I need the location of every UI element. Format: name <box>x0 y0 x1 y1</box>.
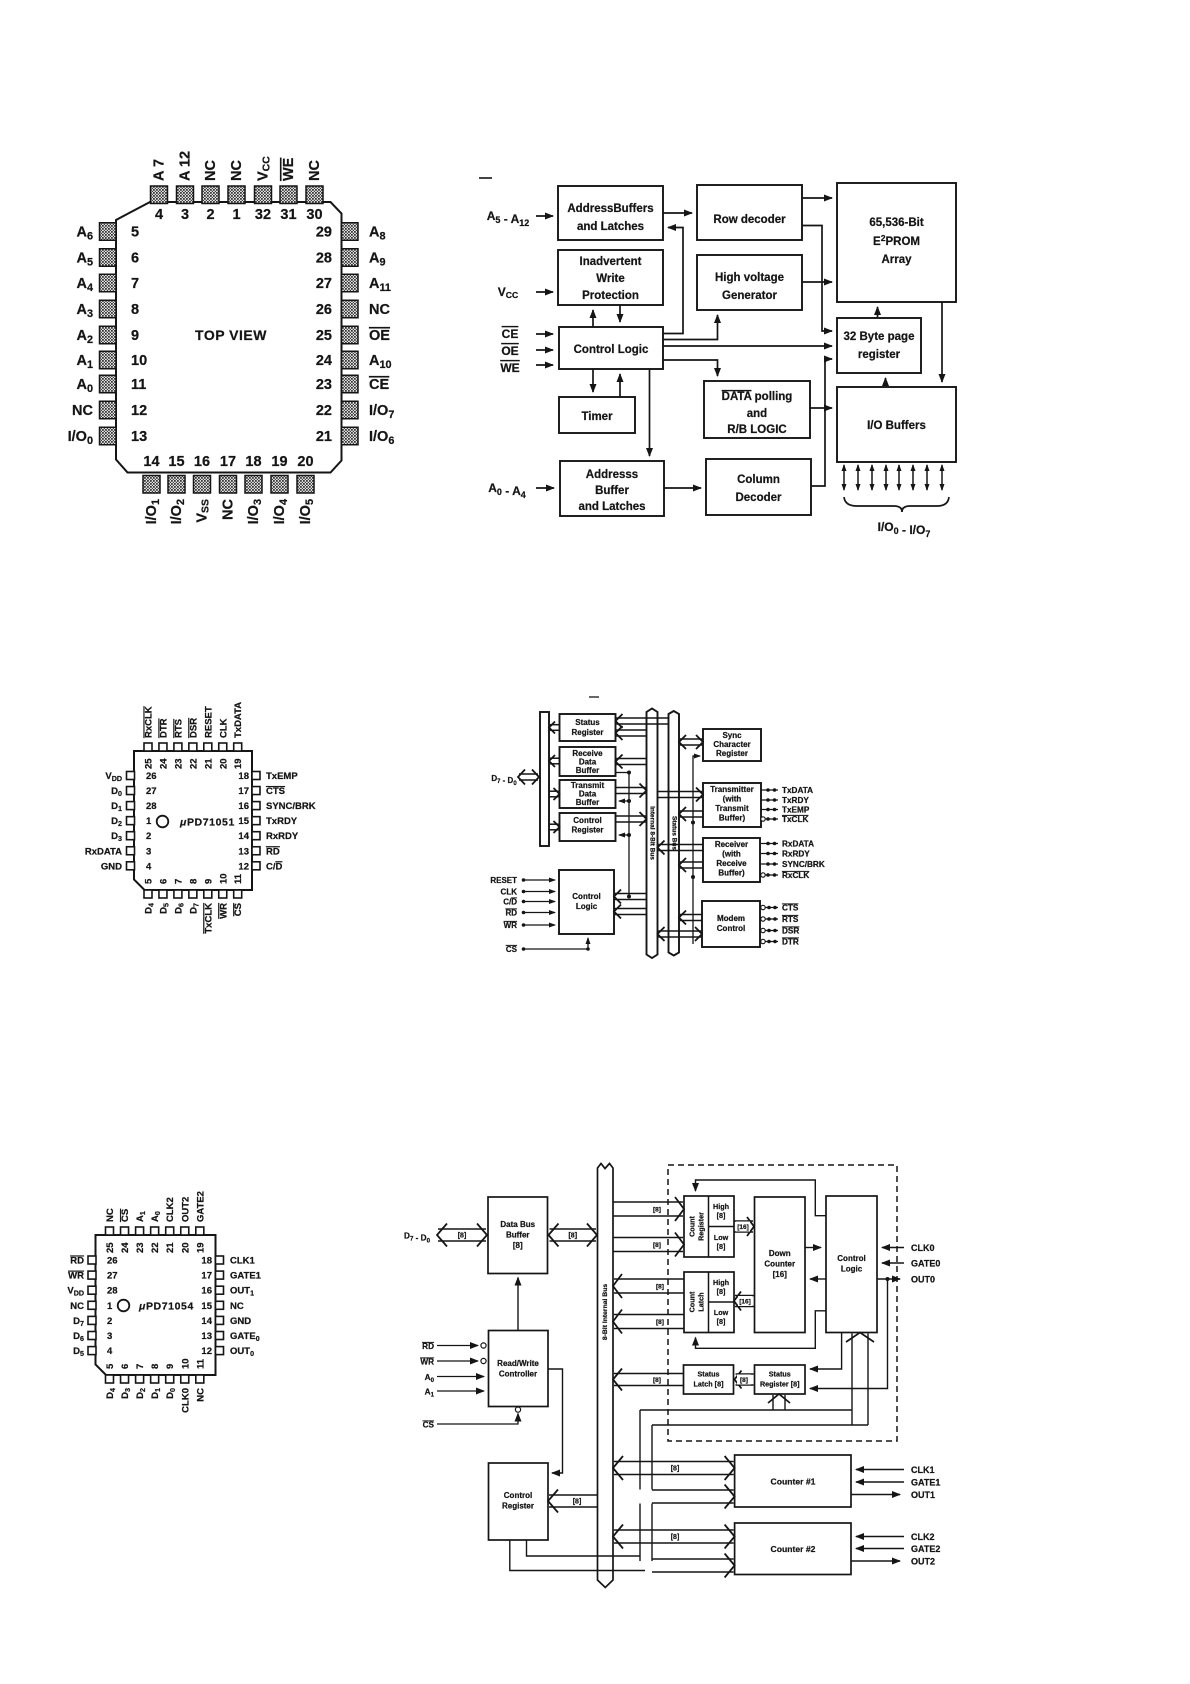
wire rail risers down to Counter 2 duct <box>639 1504 641 1562</box>
svg-text:1: 1 <box>146 816 152 827</box>
block: Control Logic <box>559 327 663 369</box>
svg-text:Control: Control <box>837 1254 865 1263</box>
svg-text:4: 4 <box>155 207 163 223</box>
svg-text:9: 9 <box>165 1364 176 1369</box>
fat arrow bus to Count Register Low [8] <box>613 1233 684 1257</box>
svg-text:Column: Column <box>737 474 780 486</box>
svg-text:2: 2 <box>107 1316 112 1327</box>
pin 8 (D7) bottom U2 <box>188 879 200 914</box>
pin 20 (CLK) top U2 <box>218 718 229 769</box>
svg-text:22: 22 <box>316 403 332 419</box>
pin 24 (CS) top U3 <box>120 1209 131 1253</box>
svg-text:GATE2: GATE2 <box>911 1544 940 1554</box>
input CLK (71051) <box>501 888 555 897</box>
fat arrow Internal Bus to Transmitter <box>658 788 704 802</box>
svg-text:21: 21 <box>165 1242 176 1253</box>
svg-text:CS: CS <box>233 903 244 916</box>
pin 12 (C/D) right U2 <box>238 861 282 872</box>
input RD (71051) <box>505 909 555 918</box>
svg-text:High: High <box>713 1278 729 1287</box>
svg-text:Control: Control <box>572 892 600 901</box>
pin 16 (VSS) bottom <box>194 454 212 523</box>
svg-text:18: 18 <box>245 454 261 470</box>
svg-text:OUT0: OUT0 <box>911 1275 935 1285</box>
pin 28 (VDD) left U3 <box>67 1286 117 1298</box>
svg-text:1: 1 <box>232 207 240 223</box>
svg-text:Write: Write <box>596 273 625 285</box>
svg-text:NC: NC <box>229 160 245 181</box>
svg-text:Read/Write: Read/Write <box>497 1359 539 1368</box>
svg-text:OE: OE <box>501 344 518 358</box>
pin 32 (VCC) top <box>255 156 273 223</box>
svg-text:25: 25 <box>316 328 332 344</box>
block: Count Register (rotated label) <box>684 1196 734 1257</box>
wire internal control line (vertical) <box>628 773 630 897</box>
svg-text:9: 9 <box>203 879 214 884</box>
svg-text:Controller: Controller <box>499 1370 537 1379</box>
svg-text:RD: RD <box>505 909 517 918</box>
svg-text:and Latches: and Latches <box>577 221 644 233</box>
svg-text:26: 26 <box>107 1256 118 1267</box>
svg-text:23: 23 <box>316 377 332 393</box>
svg-text:Buffer): Buffer) <box>718 869 745 878</box>
svg-text:24: 24 <box>120 1242 131 1253</box>
block: Receiver (with Receive Buffer) <box>703 838 760 882</box>
wire internal control line right (vertical with taps) <box>693 756 697 944</box>
pin 26 (VDD) left U2 <box>105 771 156 783</box>
output TxDATA <box>761 786 813 795</box>
svg-text:and: and <box>747 408 767 420</box>
svg-text:TxRDY: TxRDY <box>782 796 809 805</box>
svg-text:A 7: A 7 <box>152 159 168 181</box>
pin 10 (CLK0) bottom U3 <box>180 1358 191 1412</box>
wire Control Logic up to Inadvertent Write Protection <box>592 310 594 327</box>
svg-text:RxCLK: RxCLK <box>144 706 155 738</box>
input WR (71054) <box>420 1358 486 1367</box>
svg-text:Inadvertent: Inadvertent <box>580 256 642 268</box>
svg-text:GND: GND <box>230 1316 251 1327</box>
svg-text:22: 22 <box>150 1242 161 1253</box>
svg-text:CLK1: CLK1 <box>911 1465 935 1475</box>
svg-text:TxCLK: TxCLK <box>203 903 214 934</box>
pin 4 (GND) left U2 <box>101 861 152 872</box>
pin 23 (A1) top U3 <box>135 1211 147 1253</box>
output TxEMP <box>761 806 810 815</box>
svg-text:WR: WR <box>68 1271 84 1282</box>
block: 32 Byte page register <box>837 318 921 373</box>
svg-text:27: 27 <box>316 276 332 292</box>
block: Column Decoder <box>706 459 811 515</box>
wire Address Buffers to Row decoder <box>663 212 692 214</box>
svg-text:21: 21 <box>316 429 332 445</box>
svg-text:18: 18 <box>201 1256 212 1267</box>
svg-text:(with: (with <box>723 795 742 804</box>
svg-text:Status: Status <box>769 1370 791 1379</box>
fat arrow Transmit Data Buffer to Internal Bus <box>616 784 647 798</box>
svg-text:13: 13 <box>131 429 147 445</box>
wire 32 Byte page register up to E2PROM Array <box>877 307 879 317</box>
svg-text:9: 9 <box>131 328 139 344</box>
pin 15 (TxRDY) right U2 <box>238 816 297 827</box>
pin 5 (D4) bottom U2 <box>144 878 156 914</box>
pin 19 (TxDATA) top U2 <box>233 702 244 769</box>
svg-text:CLK1: CLK1 <box>230 1256 256 1267</box>
svg-text:Control: Control <box>717 924 745 933</box>
svg-text:Counter: Counter <box>764 1260 795 1269</box>
fat arrow Modem Control to Status Bus <box>679 911 702 925</box>
pin 31 (WE) top <box>280 157 297 223</box>
block: Transmit Data Buffer <box>560 780 616 808</box>
pin 18 (I/O3) bottom <box>245 454 264 524</box>
block: Address Buffers and Latches (high) <box>558 186 663 240</box>
wire Control Logic to Count Latch bottom <box>696 1311 827 1349</box>
svg-text:NC: NC <box>307 160 323 181</box>
svg-text:1: 1 <box>107 1301 113 1312</box>
svg-text:CLK0: CLK0 <box>911 1243 935 1253</box>
pin 1 (NC) top <box>228 160 245 223</box>
svg-text:31: 31 <box>280 207 296 223</box>
svg-text:Low: Low <box>714 1233 729 1242</box>
svg-text:[8]: [8] <box>653 1377 661 1384</box>
fat arrow bus to Count Register High [8] <box>613 1197 684 1221</box>
fat arrow Down Counter to Count Latch [16] <box>734 1292 754 1311</box>
svg-text:TxEMP: TxEMP <box>782 806 810 815</box>
svg-text:Logic: Logic <box>841 1265 863 1274</box>
pin 25 (RxCLK) top U2 <box>144 706 155 769</box>
svg-text:RESET: RESET <box>490 876 517 885</box>
wire Control Logic to DATA polling <box>663 360 718 376</box>
svg-text:[8]: [8] <box>568 1233 577 1240</box>
svg-text:3: 3 <box>146 846 151 857</box>
pin 12 (NC) left <box>72 401 147 419</box>
pin 27 (A11) right <box>316 274 391 294</box>
svg-text:NC: NC <box>72 403 93 419</box>
wire Timer up to Control Logic <box>619 374 621 397</box>
fat arrow rail up into Status Register bottom <box>768 1394 790 1410</box>
wire Control Logic to Count Register top <box>696 1180 827 1216</box>
wire E2PROM Array down to I/O Buffers <box>941 302 943 382</box>
svg-text:[8]: [8] <box>671 1466 680 1473</box>
svg-text:GATE2: GATE2 <box>195 1191 206 1222</box>
input CTS <box>760 904 799 913</box>
svg-text:32 Byte page: 32 Byte page <box>844 331 915 343</box>
svg-text:SYNC/BRK: SYNC/BRK <box>266 801 316 812</box>
svg-text:AddressBuffers: AddressBuffers <box>567 203 653 215</box>
svg-text:7: 7 <box>173 879 184 884</box>
block: Modem Control <box>702 901 760 947</box>
svg-text:TxRDY: TxRDY <box>266 816 298 827</box>
pin 10 (A1) left <box>76 351 147 371</box>
wire Row decoder to 32 Byte page register <box>802 226 832 332</box>
block: Data Bus Buffer [8] <box>488 1197 548 1274</box>
svg-text:14: 14 <box>143 454 159 470</box>
pin 9 (A2) left <box>76 326 139 346</box>
svg-text:Generator: Generator <box>722 290 777 302</box>
input CLK2 <box>856 1532 935 1542</box>
pin 30 (NC) top <box>306 160 323 223</box>
pin 1 (D2) left U2 <box>111 816 152 828</box>
pin 16 (SYNC/BRK) right U2 <box>238 801 315 812</box>
svg-text:SYNC/BRK: SYNC/BRK <box>782 860 825 869</box>
svg-text:5: 5 <box>105 1363 116 1369</box>
fat arrow D7-D0 to Data Bus Buffer (bidirectional) [8] <box>437 1224 487 1247</box>
output DTR <box>760 938 799 947</box>
svg-text:[16]: [16] <box>739 1299 751 1306</box>
fat arrow Receiver to Internal Bus <box>658 841 704 855</box>
output RxRDY <box>761 850 810 859</box>
svg-text:DATA polling: DATA polling <box>722 391 793 403</box>
pin 11 (NC) bottom U3 <box>195 1358 206 1401</box>
svg-text:OE: OE <box>369 328 390 344</box>
wire Read/Write Controller up to Data Bus Buffer <box>517 1278 519 1331</box>
svg-text:CS: CS <box>120 1209 131 1222</box>
pin 29 (A8) right <box>316 223 386 243</box>
svg-text:register: register <box>858 349 901 361</box>
svg-text:and Latches: and Latches <box>578 501 645 513</box>
wire Control Register tap <box>619 834 629 836</box>
input WE <box>500 361 553 375</box>
svg-text:16: 16 <box>201 1286 212 1297</box>
svg-text:CS: CS <box>423 1421 435 1430</box>
wire Row decoder to E2PROM Array <box>802 197 832 199</box>
svg-text:Row decoder: Row decoder <box>713 214 786 226</box>
block: Control Logic (71051) <box>559 870 614 934</box>
svg-text:OUT2: OUT2 <box>911 1557 935 1567</box>
wire Control Logic to Address Buffers (feedback) <box>663 228 683 334</box>
input TxCLK <box>761 815 809 824</box>
block: Status Register (71051) <box>560 714 616 741</box>
pin 4 (A 7) top <box>151 159 168 223</box>
svg-text:14: 14 <box>238 831 249 842</box>
input RESET (71051) <box>490 876 555 885</box>
svg-text:26: 26 <box>316 302 332 318</box>
svg-text:NC: NC <box>70 1301 84 1312</box>
IC package U1 body outline (32-pin PLCC, TOP VIEW) <box>116 202 342 473</box>
svg-text:27: 27 <box>107 1271 118 1282</box>
block: Control Logic (counter 0) <box>826 1196 877 1333</box>
svg-text:Low: Low <box>714 1308 729 1317</box>
svg-text:[8]: [8] <box>717 1211 726 1220</box>
pin 7 (D2) bottom U3 <box>135 1364 147 1399</box>
pin 9 (D0) bottom U3 <box>165 1364 177 1399</box>
svg-text:TxCLK: TxCLK <box>782 815 808 824</box>
svg-text:NC: NC <box>203 160 219 181</box>
svg-text:CLK2: CLK2 <box>911 1532 935 1542</box>
pin 3 (A 12) top <box>177 151 194 223</box>
svg-text:8-Bit Internal Bus: 8-Bit Internal Bus <box>602 1284 609 1340</box>
svg-text:[8]: [8] <box>513 1241 523 1250</box>
bus: Status Bus (vertical) <box>669 711 680 956</box>
block: Receive Data Buffer <box>560 747 616 776</box>
input CS (71051) <box>506 938 590 954</box>
svg-text:4: 4 <box>146 861 152 872</box>
wire Control Register to counter ducts (lower) <box>510 1540 645 1571</box>
svg-text:14: 14 <box>201 1316 212 1327</box>
svg-text:7: 7 <box>131 276 139 292</box>
input C/D (71051) <box>503 898 555 907</box>
svg-text:[8]: [8] <box>717 1287 726 1296</box>
svg-text:[8]: [8] <box>717 1317 726 1326</box>
svg-text:15: 15 <box>168 454 184 470</box>
fat arrow strip to Control Register <box>549 821 560 833</box>
block: Sync Character Register <box>703 729 761 761</box>
svg-text:12: 12 <box>201 1346 212 1357</box>
svg-text:8: 8 <box>131 302 139 318</box>
wire I/O Buffers up to 32 Byte page register <box>885 378 887 386</box>
input RD (71054) <box>422 1342 486 1351</box>
svg-text:DTR: DTR <box>782 938 799 947</box>
output TxRDY <box>761 796 809 805</box>
fat arrow Status Register to strip <box>549 722 560 734</box>
fat arrow Internal Bus to Control Logic 2 <box>614 905 647 919</box>
svg-text:GATE0: GATE0 <box>230 1331 260 1343</box>
svg-text:CLK0: CLK0 <box>180 1388 191 1413</box>
svg-text:17: 17 <box>238 786 249 797</box>
pin 2 (D7) left U3 <box>73 1316 112 1328</box>
svg-text:17: 17 <box>201 1271 212 1282</box>
svg-text:CLK2: CLK2 <box>165 1197 176 1222</box>
fat arrow Status Bus to Sync Character Register (bidirectional) <box>679 735 703 749</box>
input GATE0 <box>882 1259 940 1269</box>
svg-text:CLK: CLK <box>501 888 518 897</box>
svg-text:WR: WR <box>504 921 518 930</box>
svg-text:11: 11 <box>195 1358 206 1369</box>
svg-text:24: 24 <box>158 758 169 769</box>
input RxDATA <box>761 840 814 849</box>
wire Control Logic to 32 Byte page register <box>663 345 832 347</box>
svg-text:R/B LOGIC: R/B LOGIC <box>727 424 786 436</box>
pin 15 (NC) right U3 <box>201 1301 243 1312</box>
block: High voltage Generator <box>697 255 802 310</box>
pin 9 (TxCLK) bottom U2 <box>203 879 214 934</box>
svg-text:6: 6 <box>131 251 139 267</box>
svg-text:[8]: [8] <box>458 1233 467 1240</box>
svg-text:Buffer: Buffer <box>506 1231 530 1240</box>
svg-text:TOP VIEW: TOP VIEW <box>195 327 267 343</box>
svg-text:Control: Control <box>504 1491 532 1500</box>
svg-text:Buffer: Buffer <box>576 766 600 775</box>
wire Down Counter to Control Logic <box>805 1247 821 1249</box>
svg-text:Sync: Sync <box>722 731 742 740</box>
output SYNC/BRK <box>761 860 825 869</box>
fat arrow Internal Bus to Control Logic <box>614 890 647 904</box>
wire Column Decoder to 32 Byte page register <box>811 359 832 486</box>
svg-text:C/D: C/D <box>503 898 517 907</box>
svg-text:RxDATA: RxDATA <box>85 846 122 857</box>
svg-text:2: 2 <box>146 831 151 842</box>
svg-text:(with: (with <box>722 850 741 859</box>
wire Control Logic to Down Counter <box>810 1278 826 1280</box>
wire Transmit Data Buffer tap <box>619 800 629 802</box>
svg-text:WE: WE <box>281 157 297 181</box>
svg-text:10: 10 <box>131 353 147 369</box>
output OUT0 <box>877 1275 935 1285</box>
svg-text:28: 28 <box>107 1286 118 1297</box>
wire Addresss Buffer to Column Decoder <box>664 487 701 489</box>
svg-text:20: 20 <box>180 1242 191 1253</box>
pin 2 (D3) left U2 <box>111 831 151 843</box>
stray scan mark 2 <box>589 696 599 698</box>
svg-text:7: 7 <box>135 1364 146 1369</box>
svg-text:8: 8 <box>188 879 199 884</box>
pin 4 (D5) left U3 <box>73 1346 113 1358</box>
pin 28 (A9) right <box>316 249 386 269</box>
svg-text:Buffer): Buffer) <box>719 814 746 823</box>
svg-text:High voltage: High voltage <box>715 272 784 284</box>
svg-text:13: 13 <box>238 846 249 857</box>
block: Control Register (71054) <box>489 1463 549 1540</box>
fat arrow control rails to Counter 1 <box>652 1485 735 1509</box>
svg-text:GATE0: GATE0 <box>911 1259 940 1269</box>
svg-text:2: 2 <box>206 207 214 223</box>
pin 14 (RxRDY) right U2 <box>238 831 298 842</box>
svg-text:[8]: [8] <box>653 1207 661 1214</box>
svg-text:RD: RD <box>70 1256 84 1267</box>
pin 21 (CLK2) top U3 <box>165 1197 176 1253</box>
svg-text:C/D: C/D <box>266 861 283 872</box>
IC package U3 body outline (uPD71054) <box>96 1235 216 1375</box>
block: Count Latch (rotated label) <box>684 1272 734 1333</box>
pin 5 (D4) bottom U3 <box>105 1363 117 1399</box>
svg-text:CTS: CTS <box>782 904 799 913</box>
block: Read/Write Controller <box>489 1331 549 1407</box>
pin 14 (GND) right U3 <box>201 1316 251 1327</box>
svg-text:Register [8]: Register [8] <box>760 1380 800 1389</box>
pin 17 (NC) bottom <box>220 454 237 520</box>
block: Row decoder <box>697 185 802 240</box>
svg-text:Timer: Timer <box>581 411 613 423</box>
input VCC <box>498 285 553 300</box>
wire OUT0 feedback to Status Register <box>810 1279 888 1389</box>
output OUT1 <box>851 1490 935 1500</box>
svg-text:[8]: [8] <box>573 1499 582 1506</box>
pin 8 (D1) bottom U3 <box>150 1364 162 1399</box>
pin 25 (OE) right <box>316 326 390 344</box>
svg-text:Logic: Logic <box>576 902 598 911</box>
pin 27 (WR) left U3 <box>68 1271 117 1282</box>
fat arrow rail up into Control Logic bottom <box>846 1333 874 1426</box>
svg-text:Protection: Protection <box>582 290 639 302</box>
svg-text:μPD71051: μPD71051 <box>179 817 235 829</box>
svg-text:[8]: [8] <box>656 1284 664 1291</box>
svg-text:3: 3 <box>181 207 189 223</box>
svg-text:WR: WR <box>218 903 229 919</box>
svg-text:Receive: Receive <box>716 859 747 868</box>
input RxCLK <box>761 871 810 880</box>
svg-text:6: 6 <box>158 879 169 884</box>
block: Control Register (71051) <box>560 813 616 841</box>
block: Inadvertent Write Protection <box>558 250 663 305</box>
svg-text:5: 5 <box>131 225 139 241</box>
pin 11 (CS) bottom U2 <box>233 873 244 916</box>
svg-text:Counter #1: Counter #1 <box>771 1477 816 1487</box>
bus: Internal 8-Bit Bus (vertical) <box>647 709 658 959</box>
svg-text:23: 23 <box>135 1242 146 1253</box>
svg-text:RD: RD <box>422 1342 434 1351</box>
pin 3 (D6) left U3 <box>73 1331 112 1343</box>
svg-text:TxDATA: TxDATA <box>233 702 244 738</box>
input GATE2 <box>856 1544 940 1554</box>
rail duct from counters to Status Register / Control Logic <box>640 1409 852 1411</box>
pin-1 index circle U3 <box>118 1300 130 1312</box>
svg-text:Transmitter: Transmitter <box>710 785 754 794</box>
svg-text:CE: CE <box>369 377 389 393</box>
svg-text:15: 15 <box>201 1301 212 1312</box>
pin 18 (CLK1) right U3 <box>201 1256 255 1267</box>
svg-text:25: 25 <box>105 1242 116 1253</box>
wire Receive Data Buffer tap to control line <box>616 772 630 774</box>
input OE <box>501 344 553 358</box>
